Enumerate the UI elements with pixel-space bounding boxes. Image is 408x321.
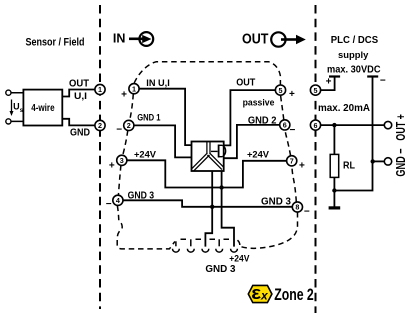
wire OUT from isolator to 5 <box>224 90 276 145</box>
OUT+ terminal circle <box>384 121 391 128</box>
svg-text:7: 7 <box>290 157 294 166</box>
junction RL top <box>332 123 336 127</box>
module terminal 1 <box>129 84 139 94</box>
svg-text:max. 30VDC: max. 30VDC <box>327 63 381 75</box>
sensor supply circle top <box>6 90 11 95</box>
svg-text:GND 3: GND 3 <box>205 264 236 275</box>
svg-text:passive: passive <box>243 98 275 108</box>
outline hook after conn5 <box>238 240 240 248</box>
isolator box <box>192 142 224 172</box>
svg-text:8: 8 <box>295 203 299 212</box>
wire terminal 6 to OUT+ <box>321 124 385 126</box>
wire 4wire OUT to terminal 1 <box>62 90 95 97</box>
isolation Y divider <box>192 142 223 171</box>
outline bus to circle 8 <box>242 213 298 249</box>
zone boundary dashed line right <box>315 5 317 313</box>
junction B/+24V <box>219 185 223 189</box>
Us arrow <box>10 100 24 117</box>
svg-text:+24V: +24V <box>247 150 270 161</box>
module outline dashed <box>117 62 297 249</box>
outline seg 1-2 <box>130 94 134 121</box>
svg-text:5: 5 <box>314 86 318 95</box>
svg-text:4: 4 <box>116 196 120 205</box>
svg-text:4-wire: 4-wire <box>31 103 55 114</box>
IN flow symbol <box>113 31 153 46</box>
sensor supply circle bottom <box>6 119 11 124</box>
svg-text:+: + <box>326 77 332 88</box>
svg-text:1: 1 <box>98 85 102 94</box>
outline top run <box>134 62 280 85</box>
zone boundary dashed line left <box>99 5 101 309</box>
svg-text:OUT: OUT <box>236 78 255 89</box>
outline seg 3-4 <box>118 165 121 195</box>
PLC terminal 5 <box>310 85 320 95</box>
supply - bar <box>334 77 378 191</box>
svg-text:GND: GND <box>70 126 90 138</box>
svg-text:−: − <box>304 206 310 217</box>
outline bus dashes <box>181 238 230 240</box>
wire GND3 net <box>123 200 292 207</box>
wire +24V net <box>127 160 287 187</box>
svg-text:5: 5 <box>279 86 283 95</box>
supply + bar <box>321 77 341 91</box>
svg-text:−: − <box>290 125 296 136</box>
svg-text:OUT +: OUT + <box>393 114 408 141</box>
module terminal 5 <box>275 85 285 95</box>
svg-text:Zone 2: Zone 2 <box>274 286 314 304</box>
svg-text:1: 1 <box>132 84 136 93</box>
svg-text:+: + <box>289 89 295 100</box>
svg-text:GND 2: GND 2 <box>248 116 277 127</box>
svg-text:3: 3 <box>120 156 124 165</box>
svg-text:2: 2 <box>98 121 102 130</box>
svg-text:6: 6 <box>283 121 287 130</box>
outline seg 2-3 <box>123 130 128 155</box>
bus connector cups <box>173 249 238 252</box>
svg-text:RL: RL <box>343 160 355 171</box>
module terminal 2 <box>124 120 134 130</box>
ground <box>329 191 341 208</box>
svg-text:max. 20mA: max. 20mA <box>318 102 370 114</box>
svg-text:OUT: OUT <box>242 31 269 47</box>
wire to GND- circle <box>373 160 385 162</box>
outline seg 4-bus <box>117 206 175 249</box>
GND- terminal circle <box>384 158 391 165</box>
svg-text:GND 1: GND 1 <box>137 113 161 124</box>
outline seg 8-7 <box>292 166 296 202</box>
svg-text:U,I: U,I <box>74 91 87 102</box>
svg-text:−: − <box>116 125 122 136</box>
module terminal 4 <box>113 195 123 205</box>
Ex hexagon <box>248 282 272 303</box>
wire 4wire GND to terminal 2 <box>62 119 95 126</box>
svg-text:2: 2 <box>127 121 131 130</box>
OUT flow symbol <box>242 31 306 47</box>
junction GND- branch <box>371 159 375 163</box>
svg-text:x: x <box>260 289 269 303</box>
wire IN to isolator <box>139 89 191 145</box>
junction A/GND3 <box>210 205 214 209</box>
svg-text:+: + <box>121 90 127 101</box>
svg-text:+: + <box>299 161 305 172</box>
outline seg 7-6 <box>285 130 291 156</box>
outline seg 6-5 <box>281 95 284 120</box>
svg-text:supply: supply <box>338 50 369 61</box>
resistor RL <box>330 125 339 190</box>
wire sensor circles to box <box>11 93 23 122</box>
svg-text:PLC / DCS: PLC / DCS <box>331 34 378 46</box>
PLC terminal 6 <box>310 120 320 130</box>
svg-text:IN U,I: IN U,I <box>146 78 170 89</box>
wire A isolator to bus GND3 <box>205 171 212 247</box>
wire GND2 from isolator to 6 <box>224 125 280 158</box>
transistor (passive output) <box>211 145 226 158</box>
svg-text:GND −: GND − <box>393 148 408 176</box>
svg-text:6: 6 <box>314 121 318 130</box>
wire GND1 to isolator <box>134 125 192 157</box>
svg-text:GND 3: GND 3 <box>261 197 291 208</box>
4-wire box <box>23 90 62 126</box>
svg-text:+: + <box>109 161 115 172</box>
svg-text:+24V: +24V <box>134 149 157 160</box>
terminal circle 1 field <box>95 84 105 94</box>
bus connector pins <box>176 239 219 246</box>
junction RL bottom <box>332 188 336 192</box>
module terminal 6 <box>280 120 290 130</box>
terminal circle 2 field <box>95 120 105 130</box>
module terminal 7 <box>287 156 297 166</box>
svg-text:GND 3: GND 3 <box>128 191 155 202</box>
svg-text:IN: IN <box>113 31 126 46</box>
wire B isolator to bus +24V <box>222 171 234 247</box>
svg-text:ε: ε <box>251 282 261 303</box>
svg-text:−: − <box>380 75 386 86</box>
svg-text:−: − <box>106 199 112 210</box>
svg-text:Sensor / Field: Sensor / Field <box>26 36 85 48</box>
svg-text:OUT: OUT <box>69 77 90 89</box>
module terminal 8 <box>292 202 302 212</box>
module terminal 3 <box>117 155 127 165</box>
